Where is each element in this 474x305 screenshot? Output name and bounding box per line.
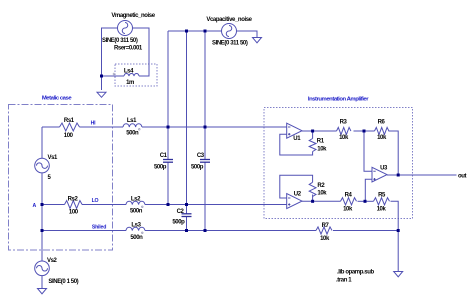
svg-text:R1: R1	[317, 139, 325, 145]
svg-text:R7: R7	[322, 223, 330, 229]
svg-text:500p: 500p	[191, 165, 204, 171]
svg-text:R5: R5	[378, 193, 386, 199]
svg-text:1m: 1m	[126, 80, 134, 86]
svg-text:C2: C2	[177, 209, 185, 215]
svg-text:10k: 10k	[377, 135, 387, 141]
svg-text:R4: R4	[345, 193, 353, 199]
svg-text:Metalic case: Metalic case	[42, 96, 72, 102]
svg-text:Instrumentation Amplifier: Instrumentation Amplifier	[308, 97, 369, 103]
svg-text:.tran 1: .tran 1	[336, 278, 352, 284]
svg-text:R3: R3	[340, 120, 348, 126]
svg-text:500n: 500n	[130, 235, 143, 241]
svg-text:Ls3: Ls3	[131, 223, 141, 229]
svg-text:SINE(0 311 50): SINE(0 311 50)	[102, 38, 138, 44]
svg-text:LO: LO	[92, 198, 99, 204]
svg-text:U1: U1	[293, 136, 301, 142]
svg-text:500n: 500n	[126, 131, 139, 137]
svg-text:10k: 10k	[343, 207, 353, 213]
svg-text:A: A	[33, 203, 37, 209]
svg-text:Rs2: Rs2	[68, 197, 79, 203]
svg-text:100: 100	[64, 133, 74, 139]
svg-text:U3: U3	[380, 166, 388, 172]
svg-text:out: out	[458, 174, 467, 180]
svg-text:SINE(0 1 50): SINE(0 1 50)	[48, 279, 78, 285]
svg-text:SINE(0 311 50): SINE(0 311 50)	[212, 41, 248, 47]
svg-text:Vcapacitive_noise: Vcapacitive_noise	[206, 17, 252, 23]
svg-text:10k: 10k	[377, 207, 387, 213]
svg-text:Vs1: Vs1	[48, 155, 59, 161]
svg-text:10k: 10k	[317, 191, 327, 197]
svg-text:HI: HI	[91, 121, 97, 127]
svg-text:500p: 500p	[154, 165, 167, 171]
svg-text:R6: R6	[378, 120, 386, 126]
svg-text:Vmagnetic_noise: Vmagnetic_noise	[111, 13, 155, 19]
svg-text:C3: C3	[197, 153, 205, 159]
svg-text:500p: 500p	[172, 220, 185, 226]
svg-text:Ls2: Ls2	[131, 197, 141, 203]
svg-text:10k: 10k	[317, 147, 327, 153]
svg-text:Ls4: Ls4	[124, 69, 134, 75]
svg-text:Shiled: Shiled	[92, 225, 106, 231]
svg-text:.lib opamp.sub: .lib opamp.sub	[337, 270, 374, 276]
svg-text:Ls1: Ls1	[127, 118, 137, 124]
svg-text:10k: 10k	[339, 135, 349, 141]
svg-text:10k: 10k	[320, 236, 330, 242]
svg-text:Rser=0.001: Rser=0.001	[114, 46, 143, 52]
svg-text:R2: R2	[317, 183, 325, 189]
svg-text:U2: U2	[294, 192, 302, 198]
svg-text:Vs2: Vs2	[47, 258, 58, 264]
svg-text:100: 100	[69, 210, 79, 216]
svg-text:C1: C1	[160, 153, 168, 159]
svg-text:Rs1: Rs1	[64, 118, 75, 124]
svg-text:500n: 500n	[130, 209, 143, 215]
